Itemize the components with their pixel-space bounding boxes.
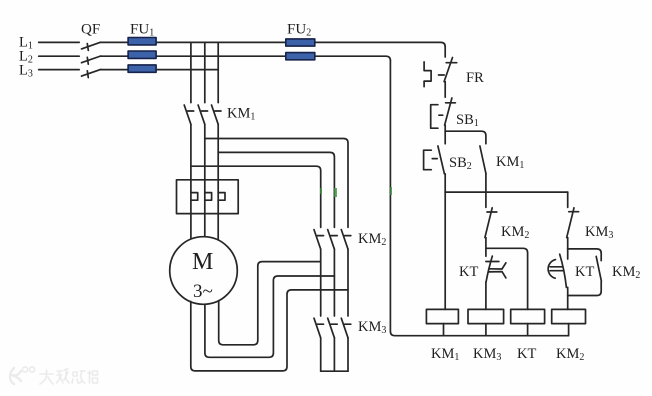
wire main vertical 1 lower: [190, 124, 192, 192]
label SB2: [449, 155, 472, 172]
wire main vertical 1 upper: [190, 42, 192, 102]
FR heater element 1: [191, 193, 198, 201]
FR heater element 3: [218, 193, 225, 201]
svg-text:M: M: [192, 249, 213, 275]
node L2 label: [19, 49, 33, 66]
node L1 label: [19, 35, 33, 52]
wire branch vertical 2 to star: [333, 338, 335, 371]
wire KM1 aux to rung bus: [485, 173, 487, 192]
coil KM3 stub: [485, 324, 487, 336]
contactor KM1 aux NO contact: [480, 146, 486, 173]
watermark logo: [10, 367, 98, 384]
wire KT to KM3 coil: [485, 282, 487, 310]
wire branch vertical 2 mid: [333, 249, 335, 316]
wire control feed top corner down: [444, 47, 446, 57]
wire SB2 to rung bus: [444, 174, 446, 192]
wire parallel branch top: [568, 249, 602, 261]
wire main vertical 2 upper: [204, 42, 206, 102]
button SB1 actuator bracket: [431, 105, 438, 129]
wire L1 bus to control corner: [101, 42, 446, 46]
fuse FU2 pole 2: [286, 53, 315, 60]
coil KT: [511, 309, 545, 323]
label QF: [81, 22, 100, 38]
label FU2: [287, 22, 311, 39]
node L3 label: [19, 63, 33, 80]
wire SB1 to junction: [444, 125, 446, 131]
label KM3 interlock: [585, 224, 613, 241]
label KM2 interlock: [501, 224, 529, 241]
wire bus corner to KM3 NC: [567, 192, 569, 207]
contactor KM2 NC interlock contact: [485, 208, 497, 238]
label KM2 parallel: [612, 264, 640, 281]
wire branch vertical 3 to star: [347, 338, 349, 371]
breaker QF pole 2: [82, 56, 101, 64]
motor lead outer U: [191, 290, 348, 371]
label coil KM2: [556, 346, 584, 363]
button SB2 NO contact: [438, 131, 445, 174]
wire FR to SB1: [444, 82, 446, 98]
label KM1 aux: [496, 154, 524, 171]
wire feed A from v2 to branch v3: [205, 139, 348, 228]
contactor KM1 main pole 2: [198, 105, 208, 124]
FR link dash: [439, 74, 445, 76]
label KM1 main: [227, 106, 255, 123]
fuse FU2 pole 1: [286, 39, 315, 46]
motor letter M: [192, 249, 213, 275]
relay FR NC contact: [444, 58, 457, 82]
wire branch vertical 1 mid: [320, 249, 322, 316]
contactor KM2 main pole 2: [328, 230, 338, 250]
button SB1 NC contact: [445, 98, 456, 125]
motor label 3~: [193, 281, 213, 302]
wire main vertical 2 lower: [204, 124, 206, 192]
svg-text:FR: FR: [466, 70, 484, 86]
contactor KM2 aux NO contact (parallel): [596, 256, 601, 281]
label KT left: [459, 264, 478, 280]
wire main vertical 3 upper: [217, 42, 219, 102]
wire star point bar: [321, 370, 348, 372]
label KM3 main: [358, 319, 386, 336]
svg-text:KT: KT: [517, 346, 536, 362]
label KM2 main: [358, 231, 386, 248]
SB2 link dash: [432, 158, 437, 160]
relay FR release element: [424, 62, 431, 87]
contactor KM1 main pole 1: [184, 105, 194, 124]
contactor KM3 NC interlock contact: [567, 208, 579, 238]
contactor KM2 main pole 3: [341, 230, 351, 250]
coil KT stub: [527, 324, 529, 336]
KT delay arc symbol: [548, 260, 563, 279]
fuse FU1 pole 2: [128, 51, 156, 58]
timer KT NC delayed contact: [486, 248, 499, 282]
motor lead middle U: [205, 276, 335, 357]
svg-text:KT: KT: [575, 264, 594, 280]
contactor KM1 main pole 3: [212, 105, 222, 124]
svg-text:3~: 3~: [193, 281, 213, 302]
label SB1: [456, 112, 479, 129]
button SB2 actuator bracket: [424, 150, 432, 170]
coil KM1 stub: [443, 324, 445, 336]
svg-text:KT: KT: [459, 264, 478, 280]
wire KT right to KM2 coil: [567, 287, 569, 309]
coil KM3: [468, 309, 504, 323]
wire L1 in: [39, 41, 79, 43]
wire KM3 NC to junction: [567, 238, 569, 249]
contactor KM3 main pole 2: [328, 318, 338, 338]
SB1 link dash: [439, 114, 443, 116]
wire left column to KM1 coil: [444, 192, 446, 309]
wire branch vertical 1 to star: [320, 338, 322, 371]
label FU1: [130, 22, 154, 39]
thermal relay FR heater box: [177, 180, 239, 214]
svg-text:QF: QF: [81, 22, 100, 38]
label FR: [466, 70, 484, 86]
motor M circle: [170, 237, 238, 305]
wire heater to motor 3: [217, 200, 219, 240]
wire KM2 NC to junction: [485, 238, 487, 249]
fuse FU1 pole 3: [128, 65, 156, 72]
label coil KM3: [473, 346, 501, 363]
wire parallel branch bottom: [568, 281, 602, 295]
wire heater to motor 2: [204, 200, 206, 237]
label coil KM1: [431, 346, 459, 363]
wire L2 in: [39, 55, 79, 57]
FR heater element 2: [205, 193, 212, 201]
coil KM2: [552, 309, 586, 323]
coil KM1: [426, 309, 458, 323]
watermark speck 2: [334, 188, 337, 197]
wire rung bus horizontal: [445, 191, 568, 193]
fuse FU1 pole 1: [128, 38, 156, 45]
watermark speck 1: [320, 188, 322, 194]
wire feed C from v1 to branch v1: [191, 166, 321, 227]
wire branch vertical 3 mid: [347, 249, 349, 316]
label KT right: [575, 264, 594, 280]
wire main vertical 3 lower: [217, 124, 219, 192]
KT delay fork symbol: [489, 263, 506, 278]
contactor KM3 main pole 3: [341, 318, 351, 338]
wire bus to KM2 NC: [485, 192, 487, 207]
wire heater to motor 1: [190, 200, 192, 240]
wire feed B from v3 to branch v2: [218, 152, 334, 227]
wire junction to KT coil branch: [486, 248, 528, 309]
watermark speck 3: [390, 187, 392, 195]
contactor KM2 main pole 1: [314, 230, 324, 250]
wire L2 bus: [101, 56, 391, 60]
wire L3 bus: [101, 69, 219, 71]
breaker QF pole 3: [82, 69, 101, 77]
wire L3 in: [39, 69, 79, 71]
label coil KT: [517, 346, 536, 362]
wire control return rail: [390, 61, 568, 336]
coil KM2 stub: [568, 324, 570, 336]
timer KT NO delayed contact: [560, 249, 568, 288]
breaker QF pole 1: [82, 42, 101, 50]
wire junction to KM1 aux branch: [445, 131, 486, 144]
motor lead inner U: [219, 262, 321, 345]
contactor KM3 main pole 1: [314, 318, 324, 338]
